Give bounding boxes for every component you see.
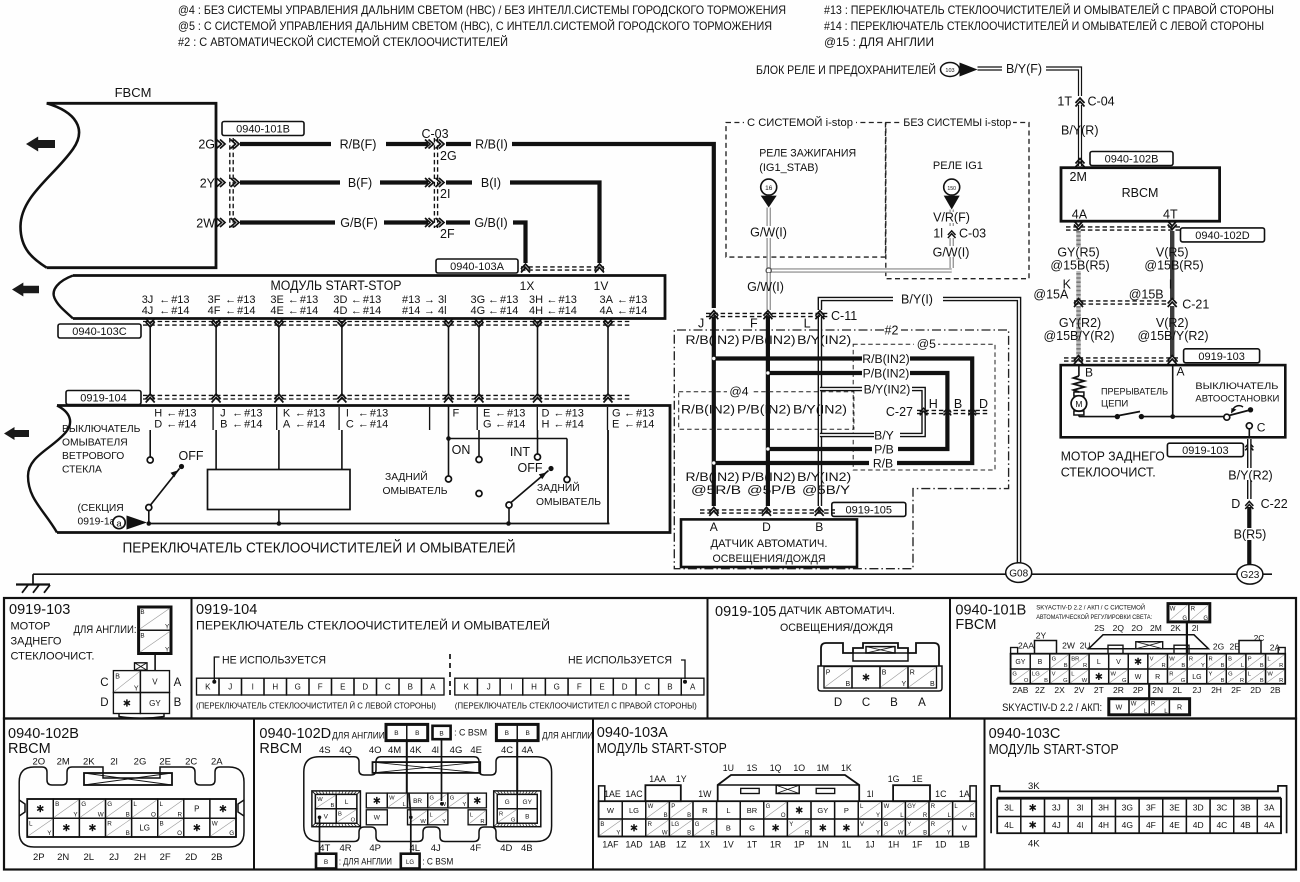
svg-text:4P: 4P: [369, 843, 381, 854]
svg-text:ЗАДНЕГО: ЗАДНЕГО: [11, 636, 62, 648]
svg-text:R/B(IN2): R/B(IN2): [681, 403, 735, 417]
svg-text:GY: GY: [817, 806, 828, 815]
svg-text:B: B: [394, 730, 398, 737]
svg-text:GY: GY: [523, 799, 533, 806]
svg-text:2F: 2F: [160, 852, 171, 863]
svg-text:G/W(I): G/W(I): [933, 246, 970, 260]
connector 0919-105 label: [832, 502, 906, 516]
svg-text:ЗАДНИЙ: ЗАДНИЙ: [385, 470, 428, 483]
svg-text:B: B: [664, 813, 668, 819]
svg-text:@4 : БЕЗ СИСТЕМЫ УПРАВЛЕНИЯ Д: @4 : БЕЗ СИСТЕМЫ УПРАВЛЕНИЯ ДАЛЬНИМ СВЕТ…: [178, 3, 786, 17]
svg-text:Y: Y: [462, 802, 466, 808]
wire G/B(I): [446, 220, 470, 224]
connector chevrons at FBCM: [217, 140, 226, 149]
svg-text:J: J: [487, 682, 491, 691]
svg-text:#14: #14: [500, 305, 518, 317]
svg-text:V: V: [152, 677, 158, 686]
svg-text:LG: LG: [629, 806, 639, 815]
connector 0940-103A label: [436, 259, 518, 273]
svg-text:2G: 2G: [440, 149, 457, 163]
svg-text:1X: 1X: [699, 840, 710, 850]
connector C-11: [706, 312, 828, 314]
svg-text:W: W: [389, 796, 395, 802]
svg-text:1K: 1K: [841, 763, 852, 773]
svg-text:#14: #14: [629, 305, 647, 317]
svg-text:1W: 1W: [698, 789, 712, 799]
svg-text:150: 150: [947, 186, 956, 192]
svg-text:3K: 3K: [1028, 781, 1040, 792]
svg-text:4l: 4l: [1077, 820, 1084, 830]
junction dots: [712, 357, 715, 360]
svg-text:B/Y(I): B/Y(I): [901, 293, 933, 307]
svg-text:4A: 4A: [600, 305, 614, 317]
svg-text:G/W(I): G/W(I): [750, 226, 787, 240]
svg-text:B/Y(IN2): B/Y(IN2): [864, 383, 911, 397]
svg-text:2B: 2B: [211, 852, 223, 863]
svg-text:W: W: [1170, 606, 1176, 612]
svg-text:ПЕРЕКЛЮЧАТЕЛЬ СТЕКЛООЧИСТИТЕЛЕ: ПЕРЕКЛЮЧАТЕЛЬ СТЕКЛООЧИСТИТЕЛЕЙ И ОМЫВАТ…: [123, 539, 516, 557]
wire B(R5): [1247, 507, 1251, 565]
svg-text:#14: #14: [244, 419, 262, 431]
svg-text:2P: 2P: [1133, 685, 1144, 695]
module FBCM: [47, 103, 216, 267]
svg-text:P/B: P/B: [874, 443, 894, 457]
wire B(I): [446, 180, 472, 184]
svg-text:R: R: [1161, 663, 1165, 669]
svg-text:D: D: [979, 397, 988, 411]
svg-text:@15 : ДЛЯ АНГЛИИ: @15 : ДЛЯ АНГЛИИ: [824, 35, 934, 49]
connector 0919-103 label top: [1184, 349, 1260, 363]
svg-text:3B: 3B: [1240, 803, 1251, 813]
svg-text:0940-102D: 0940-102D: [1195, 230, 1249, 242]
svg-text:R: R: [1209, 656, 1213, 662]
svg-text:R: R: [923, 813, 928, 819]
svg-text:1l: 1l: [933, 227, 943, 241]
svg-text:МОДУЛЬ START-STOP: МОДУЛЬ START-STOP: [989, 742, 1119, 758]
svg-text:0940-103A: 0940-103A: [450, 261, 504, 273]
svg-text:B/Y(IN2): B/Y(IN2): [797, 470, 851, 484]
svg-text:ПЕРЕКЛЮЧАТЕЛЬ СТЕКЛООЧИСТИТЕЛЕ: ПЕРЕКЛЮЧАТЕЛЬ СТЕКЛООЧИСТИТЕЛЕЙ И ОМЫВАТ…: [196, 620, 550, 633]
svg-text:0940-101B: 0940-101B: [236, 123, 290, 135]
svg-text:GY: GY: [907, 804, 916, 810]
svg-text:МОДУЛЬ START-STOP: МОДУЛЬ START-STOP: [271, 278, 402, 293]
svg-text:R: R: [910, 669, 915, 676]
svg-text:ПРЕРЫВАТЕЛЬ: ПРЕРЫВАТЕЛЬ: [1101, 387, 1168, 398]
svg-text:4C: 4C: [1216, 820, 1227, 830]
svg-text:R/B(IN2): R/B(IN2): [862, 352, 909, 366]
svg-text:1AB: 1AB: [649, 840, 666, 850]
svg-text:#14: #14: [566, 419, 584, 431]
svg-text:1S: 1S: [747, 763, 758, 773]
svg-text:1U: 1U: [723, 763, 734, 773]
svg-text:G: G: [1182, 616, 1187, 622]
svg-text:2U: 2U: [1080, 641, 1091, 651]
svg-text:2Y: 2Y: [1036, 631, 1047, 641]
svg-text:#14: #14: [636, 419, 654, 431]
svg-text:1C: 1C: [935, 789, 947, 799]
svg-text:#14: #14: [178, 419, 196, 431]
svg-text:GY(R2): GY(R2): [1059, 316, 1101, 330]
svg-text:B(F): B(F): [348, 176, 372, 190]
option box without i-stop: [886, 123, 1029, 279]
svg-text:2G: 2G: [1213, 642, 1224, 652]
motor M: [1074, 392, 1084, 396]
svg-text:B: B: [415, 730, 419, 737]
wire J column R/B: [712, 317, 716, 506]
svg-text:B/Y: B/Y: [874, 429, 894, 443]
wire column x=278.9: [278, 326, 280, 395]
svg-text:2G: 2G: [198, 138, 215, 152]
wire GY(R2): [1076, 306, 1080, 356]
svg-text:←: ←: [554, 419, 565, 431]
svg-text:0940-103C: 0940-103C: [72, 326, 126, 338]
svg-text:4D: 4D: [1193, 820, 1204, 830]
svg-text:0919-104: 0919-104: [80, 392, 127, 404]
fuse 103 symbol: [941, 63, 960, 77]
svg-text:РЕЛЕ ЗАЖИГАНИЯ: РЕЛЕ ЗАЖИГАНИЯ: [759, 148, 856, 160]
wire G/W(I) relay16: [766, 208, 771, 270]
svg-text:1l: 1l: [867, 789, 874, 799]
svg-text:L: L: [29, 820, 33, 827]
svg-text:L: L: [345, 799, 349, 806]
svg-text:2E: 2E: [159, 757, 171, 768]
svg-text:R/B(I): R/B(I): [475, 138, 508, 152]
svg-text:D: D: [622, 682, 628, 691]
svg-text:2AB: 2AB: [1012, 685, 1028, 695]
svg-text:4M: 4M: [388, 745, 401, 756]
svg-text:3C: 3C: [1216, 803, 1227, 813]
svg-text:2F: 2F: [440, 227, 455, 241]
svg-text:W: W: [374, 815, 381, 822]
svg-text:2P: 2P: [33, 852, 45, 863]
wire column x=150.2: [149, 326, 151, 395]
svg-text:B/Y(IN2): B/Y(IN2): [797, 333, 851, 347]
svg-text:B/Y(IN2): B/Y(IN2): [793, 403, 847, 417]
svg-text:G: G: [884, 822, 889, 828]
svg-text:A: A: [283, 419, 291, 431]
svg-text:ДАТЧИК АВТОМАТИЧ.: ДАТЧИК АВТОМАТИЧ.: [711, 538, 828, 550]
table section frames: [4, 598, 1296, 719]
svg-text:C: C: [1257, 421, 1266, 435]
svg-text:3D: 3D: [1193, 803, 1204, 813]
svg-text:1T: 1T: [747, 840, 758, 850]
svg-text:4J: 4J: [1052, 820, 1061, 830]
wire L column B/Y: [818, 317, 823, 506]
connector rail 1X 1V: [521, 266, 604, 268]
svg-text:V: V: [1150, 656, 1154, 662]
svg-text:B: B: [726, 823, 731, 832]
svg-text:B: B: [1064, 663, 1068, 669]
svg-text:H: H: [531, 682, 537, 691]
svg-text:1O: 1O: [793, 763, 805, 773]
svg-text:E: E: [612, 419, 619, 431]
module wiper washer switch: [57, 406, 670, 533]
wire F column P/B: [766, 317, 770, 506]
svg-text:LG: LG: [671, 822, 679, 828]
svg-text:SKYACTIV-D 2.2 / АКП:: SKYACTIV-D 2.2 / АКП:: [1002, 702, 1102, 714]
wire column x=448.5: [448, 326, 450, 395]
svg-text:С СИСТЕМОЙ i-stop: С СИСТЕМОЙ i-stop: [747, 116, 853, 129]
svg-text:G: G: [766, 804, 771, 810]
svg-text:OFF: OFF: [179, 449, 204, 463]
svg-text:АВТОМАТИЧЕСКОЙ РЕГУЛИРОВКИ СВЕ: АВТОМАТИЧЕСКОЙ РЕГУЛИРОВКИ СВЕТА:: [1036, 612, 1152, 621]
svg-text:W: W: [98, 811, 104, 818]
svg-text:2J: 2J: [1192, 685, 1201, 695]
svg-text:G: G: [483, 419, 492, 431]
svg-text:4G: 4G: [471, 305, 486, 317]
svg-text:J: J: [228, 682, 232, 691]
svg-text:R: R: [970, 813, 975, 819]
svg-text:←: ←: [288, 305, 299, 317]
svg-text:#14: #14: [307, 419, 325, 431]
svg-text:B: B: [174, 697, 182, 709]
svg-text:@5B/Y: @5B/Y: [802, 483, 850, 497]
svg-text:2C: 2C: [185, 757, 197, 768]
svg-text:@5P/B: @5P/B: [747, 483, 796, 497]
svg-text:BR: BR: [413, 798, 422, 805]
svg-text:B: B: [55, 801, 59, 808]
wire R/B(F): [240, 142, 331, 146]
svg-text:4F: 4F: [1146, 820, 1156, 830]
svg-text:R: R: [177, 811, 182, 818]
svg-text:←: ←: [232, 419, 243, 431]
svg-text:2M: 2M: [57, 757, 70, 768]
svg-text:←: ←: [295, 419, 306, 431]
svg-text:2l: 2l: [110, 757, 117, 768]
svg-text:2Z: 2Z: [1035, 685, 1045, 695]
svg-text:P: P: [844, 806, 849, 815]
svg-text:W: W: [1110, 672, 1116, 678]
svg-text:G: G: [295, 682, 301, 691]
svg-text:←: ←: [488, 305, 499, 317]
svg-text:2F: 2F: [1231, 685, 1241, 695]
svg-text:B: B: [126, 811, 130, 818]
svg-text:D: D: [1231, 497, 1240, 511]
wire column x=341.9: [341, 326, 343, 395]
svg-text:B: B: [1221, 663, 1225, 669]
svg-text:B: B: [505, 730, 509, 737]
svg-text:D: D: [762, 520, 771, 534]
svg-text:D: D: [100, 697, 108, 709]
svg-text:G/B(F): G/B(F): [340, 216, 378, 230]
svg-text:2l: 2l: [1192, 623, 1199, 633]
svg-text:БЕЗ СИСТЕМЫ i-stop: БЕЗ СИСТЕМЫ i-stop: [903, 117, 1011, 129]
svg-text:МОТОР: МОТОР: [11, 621, 51, 633]
svg-text:B: B: [408, 682, 413, 691]
svg-text:СТЕКЛООЧИСТ.: СТЕКЛООЧИСТ.: [11, 651, 95, 663]
svg-text:#14: #14: [507, 419, 525, 431]
svg-text:G/B(I): G/B(I): [474, 216, 507, 230]
wire column x=216.1: [215, 326, 217, 395]
svg-text:GY: GY: [1015, 659, 1025, 666]
svg-text:(ПЕРЕКЛЮЧАТЕЛЬ СТЕКЛООЧИСТИТЕЛ: (ПЕРЕКЛЮЧАТЕЛЬ СТЕКЛООЧИСТИТЕЛ С ПРАВОЙ …: [455, 700, 697, 711]
svg-text:2R: 2R: [1113, 685, 1124, 695]
svg-text:G: G: [430, 796, 435, 802]
svg-text:@4: @4: [729, 385, 748, 399]
svg-text:W: W: [648, 804, 654, 810]
svg-text:1V: 1V: [594, 279, 609, 293]
svg-text:1Q: 1Q: [770, 763, 782, 773]
svg-text:F: F: [750, 317, 758, 331]
svg-text:(ПЕРЕКЛЮЧАТЕЛЬ СТЕКЛООЧИСТИТЕЛ: (ПЕРЕКЛЮЧАТЕЛЬ СТЕКЛООЧИСТИТЕЛ Й С ЛЕВОЙ…: [196, 700, 436, 711]
svg-text:P/B(IN2): P/B(IN2): [863, 367, 910, 381]
svg-text:ОМЫВАТЕЛЯ: ОМЫВАТЕЛЯ: [62, 438, 128, 449]
svg-text:0919-105: 0919-105: [846, 504, 893, 516]
wire column x=608: [607, 326, 609, 395]
svg-text:4O: 4O: [369, 745, 382, 756]
wire G/B(F): [240, 220, 335, 224]
node a: [113, 516, 125, 528]
svg-text:B: B: [1260, 663, 1264, 669]
svg-text:←: ←: [159, 305, 170, 317]
svg-text:4J: 4J: [431, 843, 441, 854]
ground G23: [1237, 565, 1263, 585]
svg-text:M: M: [1075, 399, 1082, 409]
svg-text:BR: BR: [747, 806, 758, 815]
sensor connector rail: [700, 509, 835, 511]
svg-text:C-11: C-11: [831, 309, 857, 323]
svg-text:1G: 1G: [888, 774, 900, 784]
svg-text:F: F: [577, 682, 582, 691]
loop R/B(IN2) through C-27 D: [714, 356, 862, 360]
svg-text:FBCM: FBCM: [955, 617, 996, 633]
wire F branch: [448, 406, 450, 476]
svg-text:G: G: [1012, 672, 1017, 678]
svg-text:P: P: [826, 669, 831, 676]
svg-text:R: R: [1151, 702, 1156, 708]
svg-text:#14: #14: [171, 305, 189, 317]
svg-text:V: V: [1052, 672, 1056, 678]
svg-text:RBCM: RBCM: [259, 741, 302, 757]
svg-text:@15B/Y(R2): @15B/Y(R2): [1137, 329, 1208, 343]
svg-text:0919-103: 0919-103: [9, 602, 70, 618]
svg-text:B: B: [1038, 659, 1043, 666]
svg-text:L: L: [726, 806, 730, 815]
svg-text:W: W: [607, 806, 615, 815]
svg-text:FBCM: FBCM: [115, 85, 152, 100]
svg-text:4E: 4E: [1169, 820, 1180, 830]
svg-text:0940-103C: 0940-103C: [989, 726, 1061, 742]
svg-text:←: ←: [617, 305, 628, 317]
connector rail under RBCM: [1066, 226, 1180, 228]
svg-text:R: R: [648, 822, 653, 828]
svg-text:A: A: [1177, 365, 1185, 379]
svg-text:ДЛЯ АНГЛИИ:: ДЛЯ АНГЛИИ:: [74, 624, 137, 636]
connector 0919-104 label: [66, 391, 141, 405]
svg-text:4E: 4E: [470, 745, 482, 756]
svg-text:ДЛЯ АНГЛИИ:: ДЛЯ АНГЛИИ:: [332, 731, 387, 742]
svg-text:V: V: [962, 823, 967, 832]
svg-text:←: ←: [351, 305, 362, 317]
svg-text:2G: 2G: [134, 757, 147, 768]
svg-text:Y: Y: [134, 686, 139, 693]
svg-text:СТЕКЛА: СТЕКЛА: [62, 465, 102, 476]
svg-text:LG: LG: [1192, 674, 1201, 681]
svg-text:#14: #14: [370, 419, 388, 431]
svg-text:3l: 3l: [1077, 803, 1084, 813]
svg-text:1Z: 1Z: [676, 840, 687, 850]
svg-text:0940-102D: 0940-102D: [259, 726, 331, 742]
svg-text:R: R: [931, 804, 936, 810]
svg-text:1B: 1B: [959, 840, 970, 850]
svg-text:1AA: 1AA: [649, 774, 666, 784]
arrow left FBCM: [26, 137, 55, 152]
svg-text:Y: Y: [1201, 663, 1205, 669]
svg-text:#14 : ПЕРЕКЛЮЧАТЕЛЬ СТЕКЛООЧИС: #14 : ПЕРЕКЛЮЧАТЕЛЬ СТЕКЛООЧИСТИТЕЛЕЙ И …: [824, 18, 1264, 33]
svg-text:A: A: [430, 682, 436, 691]
svg-text:2Y: 2Y: [200, 177, 216, 191]
svg-text:R/B(F): R/B(F): [340, 138, 377, 152]
svg-text:RBCM: RBCM: [1122, 186, 1159, 200]
svg-text:A: A: [918, 697, 926, 709]
svg-text:G23: G23: [1240, 570, 1259, 581]
svg-text:#2 : С АВТОМАТИЧЕСКОЙ СИСТЕМОЙ: #2 : С АВТОМАТИЧЕСКОЙ СИСТЕМОЙ СТЕКЛООЧИ…: [178, 34, 508, 49]
svg-text:P/B(IN2): P/B(IN2): [737, 403, 791, 417]
svg-text:D: D: [154, 419, 162, 431]
svg-text:2W: 2W: [196, 217, 215, 231]
svg-text:16: 16: [765, 185, 773, 192]
svg-text:Y: Y: [789, 822, 793, 828]
svg-text:V: V: [324, 813, 329, 820]
svg-text:2D: 2D: [185, 852, 197, 863]
svg-text:2W: 2W: [1062, 641, 1075, 651]
svg-text:B/Y(R): B/Y(R): [1061, 124, 1099, 138]
svg-text:C-27: C-27: [886, 405, 913, 419]
svg-text:4H: 4H: [1098, 820, 1109, 830]
svg-text:P: P: [194, 804, 199, 813]
svg-text:H: H: [272, 682, 278, 691]
svg-text:V: V: [860, 822, 864, 828]
svg-text:4T: 4T: [319, 843, 330, 854]
svg-text:O: O: [151, 811, 156, 818]
svg-text:O: O: [351, 817, 356, 823]
svg-text:l: l: [252, 682, 254, 691]
svg-text:1N: 1N: [817, 840, 828, 850]
svg-text:B: B: [331, 803, 335, 809]
motor connector rail: [1064, 357, 1180, 359]
arrow left switch block: [4, 427, 29, 440]
svg-text:2S: 2S: [1094, 623, 1105, 633]
option box #2: [674, 330, 1008, 569]
svg-text:2K: 2K: [83, 757, 95, 768]
svg-text:G08: G08: [1009, 569, 1028, 580]
svg-text:МОТОР ЗАДНЕГО: МОТОР ЗАДНЕГО: [1061, 449, 1165, 464]
svg-text:E: E: [340, 682, 345, 691]
wire G/W(I) horizontal: [770, 268, 952, 273]
svg-text:a: a: [116, 519, 122, 530]
svg-text:0919-104: 0919-104: [196, 602, 257, 618]
svg-text:B: B: [160, 820, 164, 827]
svg-text:2M: 2M: [1070, 170, 1087, 184]
svg-text:W: W: [1131, 702, 1137, 708]
connector 0940-102B label: [1090, 152, 1173, 166]
svg-text:3L: 3L: [1004, 803, 1014, 813]
ground G08: [1006, 563, 1032, 583]
svg-text:2E: 2E: [1229, 642, 1240, 652]
wire B/Y(I): [820, 299, 1019, 563]
svg-text:4l: 4l: [438, 305, 447, 317]
svg-text:2H: 2H: [1211, 685, 1222, 695]
svg-text:Y: Y: [907, 822, 911, 828]
svg-text:B(I): B(I): [481, 176, 501, 190]
svg-text:D: D: [362, 682, 368, 691]
svg-text:1F: 1F: [912, 840, 923, 850]
svg-text:K: K: [463, 682, 469, 691]
svg-text:1H: 1H: [888, 840, 899, 850]
svg-text:B: B: [667, 682, 672, 691]
svg-text:R: R: [1279, 663, 1283, 669]
svg-text:#14: #14: [300, 305, 318, 317]
